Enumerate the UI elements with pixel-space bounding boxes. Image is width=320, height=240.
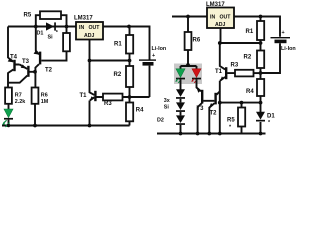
- highlight box around LEDs (right): [174, 64, 202, 85]
- svg-text:Si: Si: [48, 35, 54, 41]
- transistor T3 (left): [8, 59, 35, 82]
- junction node: LED splitter (right): [181, 63, 197, 69]
- svg-text:T2: T2: [210, 111, 218, 117]
- svg-text:R3: R3: [104, 101, 112, 107]
- resistor R1 (right): [246, 17, 265, 44]
- LED green (right): [175, 69, 185, 83]
- svg-text:OUT: OUT: [220, 15, 232, 21]
- resistor R5 (right): [227, 103, 245, 134]
- junction node: T2 collector / T3 base / R6 (left): [33, 70, 37, 74]
- svg-text:T1: T1: [215, 69, 223, 75]
- wire: left vertical rail lower segment to R7 (left): [7, 73, 9, 88]
- svg-text:R4: R4: [136, 108, 144, 114]
- junction node: R5 left / T2 emitter tap (left): [34, 25, 38, 29]
- junction node: R6 bottom rail (left): [33, 124, 37, 128]
- resistor R4 (left): [126, 97, 144, 126]
- resistor R5 (left): [24, 11, 67, 26]
- battery Li-Ion cell (left): [139, 46, 166, 97]
- svg-text:R1: R1: [246, 29, 254, 35]
- svg-text:3x: 3x: [164, 98, 170, 104]
- junction node: R5 right / R8 top (left): [65, 25, 69, 29]
- svg-text:IN: IN: [79, 25, 84, 31]
- LED green indicator (left): [2, 109, 13, 127]
- junction node: R1/R2 (right): [259, 41, 263, 45]
- wire: ADJ pin down and across to R1/R2 node (left): [90, 40, 130, 61]
- svg-text:T1: T1: [80, 93, 88, 99]
- svg-text:D1: D1: [267, 113, 275, 119]
- svg-text:R5: R5: [24, 13, 32, 19]
- svg-text:D1: D1: [37, 30, 44, 36]
- resistor R2 (right): [244, 43, 265, 73]
- wire: bottom rail (left): [2, 125, 130, 127]
- junction node: ADJ/T1 collector (right): [218, 41, 222, 45]
- svg-text:R6: R6: [193, 38, 201, 44]
- svg-text:T4: T4: [10, 54, 18, 60]
- svg-text:T3: T3: [197, 106, 205, 112]
- wire: T1 emitter node to R4/D1 (right): [220, 102, 261, 104]
- diode D1 (right): [256, 103, 275, 134]
- transistor T1 (right): [215, 43, 235, 134]
- resistor R3 (left): [96, 94, 129, 107]
- svg-text:R5: R5: [227, 117, 235, 123]
- svg-text:R7: R7: [15, 92, 22, 98]
- junction node: R2/R3/R4/battery (left): [128, 95, 132, 99]
- svg-text:Li-Ion: Li-Ion: [152, 46, 167, 52]
- svg-text:T2: T2: [45, 68, 53, 74]
- svg-text:T3: T3: [22, 59, 30, 65]
- junction node: T1 emitter to bottom rail (left): [88, 124, 92, 128]
- svg-text:R2: R2: [244, 55, 252, 61]
- junction node: OUT/R1 (right): [259, 15, 263, 19]
- transistor T2 (right): [209, 91, 220, 133]
- svg-text:LM317: LM317: [74, 16, 93, 22]
- svg-text:IN: IN: [210, 15, 215, 21]
- resistor R7 2.2k (left): [5, 88, 25, 110]
- wire: battery negative return to divider node (left): [130, 96, 150, 98]
- wire: OUT rail to battery (right): [234, 17, 280, 37]
- diode D2 (right): [157, 112, 185, 134]
- junction node: T1 wire bottom rail (right): [218, 132, 222, 136]
- diode chain Si a (right): [164, 79, 185, 104]
- op-amp U2 LM317 regulator (right): [206, 2, 234, 28]
- junction node: diode chain to bottom rail (right): [179, 132, 183, 136]
- transistor T1 (left): [80, 61, 97, 126]
- resistor R4 (right): [246, 73, 264, 103]
- svg-text:2.2k: 2.2k: [15, 99, 25, 105]
- wire: top rail (right): [172, 16, 207, 18]
- junction node: R2/R3/R4/battery (right): [259, 71, 263, 75]
- resistor R2 (left): [114, 61, 134, 98]
- svg-text:1M: 1M: [41, 99, 49, 105]
- diode chain Si b (right): [164, 99, 185, 112]
- junction node: R6 tap on top rail (right): [186, 15, 190, 19]
- transistor T2 (left): [34, 27, 53, 88]
- op-amp U1 LM317 regulator (left): [74, 16, 103, 40]
- resistor R1 (left): [114, 27, 133, 61]
- junction node: D1 bottom rail (right): [259, 132, 263, 136]
- junction node: LED bottom rail (left): [7, 124, 10, 127]
- svg-text:+: +: [152, 53, 155, 59]
- junction node: T2 emitter bottom rail (right): [207, 132, 211, 136]
- svg-text:Li-Ion: Li-Ion: [281, 46, 296, 52]
- resistor R6 (right): [185, 17, 201, 65]
- svg-text:D2: D2: [157, 117, 164, 123]
- svg-text:+: +: [282, 30, 285, 36]
- resistor R6 1M (left): [32, 88, 49, 126]
- wire: top rail left circuit: [8, 26, 76, 28]
- svg-text:OUT: OUT: [89, 25, 101, 31]
- transistor T4 (left): [8, 54, 20, 73]
- transistor T3 (right): [196, 79, 214, 133]
- resistor R8 unlabeled (left): [41, 27, 70, 61]
- junction node: T1 emitter / R5 wire (right): [218, 101, 222, 105]
- resistor R3 (right): [231, 63, 261, 77]
- junction node: OUT/R1 (left): [127, 25, 131, 29]
- junction node: R4 bottom / D1 top (right): [259, 101, 263, 105]
- junction node: T3 collector bottom rail (right): [196, 132, 200, 136]
- junction node: R1/R2 divider (left): [128, 59, 132, 63]
- wire: OUT to battery corner (left): [103, 27, 150, 60]
- junction node: ADJ wire (left): [88, 59, 92, 63]
- svg-text:ADJ: ADJ: [84, 33, 94, 39]
- wire: left vertical rail upper segment (left): [7, 27, 9, 59]
- svg-text:R1: R1: [114, 42, 122, 48]
- svg-text:R4: R4: [246, 89, 254, 95]
- diode D1 (left): [37, 22, 59, 40]
- svg-text:LM317: LM317: [206, 2, 225, 8]
- battery Li-Ion cell (right): [261, 30, 296, 73]
- svg-text:R2: R2: [114, 72, 122, 78]
- svg-text:ADJ: ADJ: [215, 22, 225, 28]
- junction node: R5 top (right): [240, 101, 244, 105]
- wire: ADJ pin down and across (right): [221, 28, 261, 43]
- svg-text:R6: R6: [41, 92, 48, 98]
- svg-text:Si: Si: [164, 105, 170, 111]
- LED red (right): [191, 69, 201, 83]
- wire: bottom rail (right): [157, 133, 266, 135]
- svg-text:R3: R3: [231, 63, 239, 69]
